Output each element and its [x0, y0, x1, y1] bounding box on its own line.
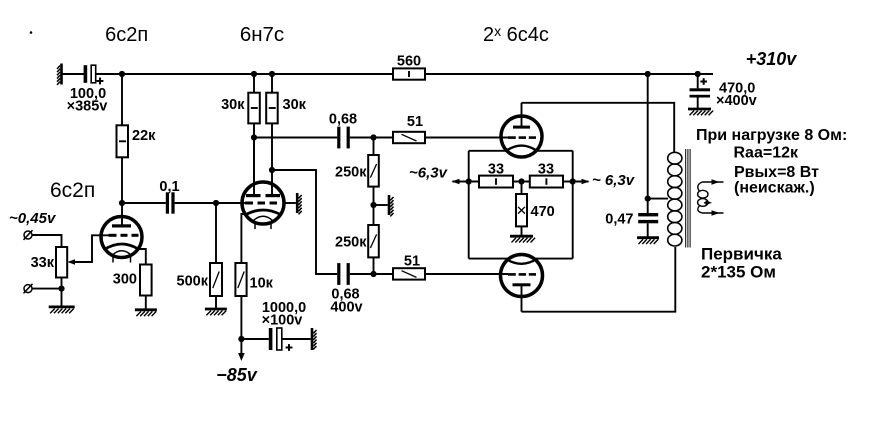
- tube V1 cathode: [105, 244, 140, 250]
- tube V1 6s2p envelope: [101, 217, 142, 258]
- potentiometer 33k body: [56, 247, 67, 278]
- wire 0,47 cap top stub: [647, 199, 649, 213]
- node B+ at 30k left: [251, 71, 257, 77]
- resistor 300: [140, 265, 152, 296]
- wire +310v rail (560 to right end): [425, 73, 713, 75]
- capacitor 0,1: [166, 192, 175, 213]
- capacitor 0,68 upper: [337, 127, 350, 149]
- arrow heater 6,3v left: [452, 179, 460, 185]
- wire 300 resistor to ground: [145, 296, 147, 310]
- tube V3 grid: [508, 136, 536, 139]
- node upper 250k top: [370, 134, 376, 140]
- tube V1 heater: [113, 251, 132, 263]
- tube V2 anode a1: [246, 138, 261, 198]
- wire heater loop top (upper 6s4s cathode): [469, 150, 573, 152]
- svg-text:0,1: 0,1: [159, 179, 179, 195]
- wire center tap horizontal: [648, 198, 668, 200]
- ground under 470,0: [688, 109, 713, 115]
- svg-text:0,68: 0,68: [329, 112, 357, 128]
- wire 0,47 cap bottom stub to ground: [647, 223, 649, 237]
- svg-text:250к: 250к: [335, 235, 367, 251]
- svg-text:400v: 400v: [330, 300, 362, 316]
- svg-text:×400v: ×400v: [716, 93, 757, 109]
- wire 1000,0 cap to ground wall: [282, 338, 311, 340]
- wire B+ rail (cap to 560): [96, 73, 394, 75]
- node heater right: [570, 178, 576, 184]
- svg-text:6с2п: 6с2п: [50, 179, 95, 202]
- wire 6,3v humdinger row: [453, 181, 589, 183]
- node B+ at 22k: [119, 71, 125, 77]
- wire 250k chain vertical: [373, 138, 375, 275]
- resistor 30k left: [248, 93, 259, 124]
- node 250k midpoint: [370, 202, 376, 208]
- wire 470,0 cap bottom stub to ground: [697, 98, 699, 109]
- wire upper 51 to V3 grid: [425, 137, 508, 139]
- wire input top terminal to pot: [32, 235, 62, 247]
- tube V4 cathode: [506, 259, 537, 264]
- ground wall at input cap: [57, 64, 63, 85]
- wire heater loop bottom (lower 6s4s cathode): [469, 258, 573, 260]
- input terminal bottom: [24, 284, 33, 294]
- svg-text:~6,3v: ~6,3v: [409, 165, 449, 182]
- svg-text:10к: 10к: [250, 276, 274, 292]
- wire input bottom terminal to pot bottom: [32, 288, 62, 290]
- capacitor 100,0 x385v electrolytic: [84, 65, 104, 84]
- transformer core: [685, 149, 690, 248]
- wire 30k left feed down to anode 1: [253, 74, 255, 184]
- wire lower 51 to V4 grid: [425, 273, 508, 275]
- svg-text:300: 300: [113, 272, 137, 288]
- tube V2 heater: [254, 216, 273, 229]
- resistor 250k lower: [368, 225, 379, 257]
- svg-text:33: 33: [538, 162, 554, 178]
- tube V4 lower 6s4s envelope: [501, 255, 543, 297]
- wire anode node to 0,1 cap: [122, 202, 166, 204]
- secondary lead arrowheads: [706, 179, 720, 216]
- tube V4 anode: [513, 283, 531, 311]
- wire 470 resistor to ground: [521, 182, 523, 236]
- ground wall at 250k midpoint: [388, 195, 394, 216]
- wire upper anode to transformer primary top: [522, 103, 675, 153]
- wire -85v node to 1000,0 cap: [241, 338, 268, 340]
- arrow -85v: [238, 339, 245, 361]
- input terminal top: [24, 230, 33, 240]
- svg-text:+310v: +310v: [746, 49, 798, 69]
- svg-text:30к: 30к: [221, 97, 245, 113]
- node primary center tap: [645, 196, 651, 202]
- capacitor 0,47: [638, 213, 658, 223]
- tube V3 anode: [513, 103, 530, 129]
- resistor 51 lower: [393, 268, 425, 279]
- node +310v at transformer feed: [645, 71, 651, 77]
- node B+ at 30k right: [269, 71, 275, 77]
- tube V2 6n7s envelope: [242, 182, 284, 224]
- ground under 0,47: [637, 238, 659, 244]
- svg-text:При нагрузке 8 Ом:: При нагрузке 8 Ом:: [696, 127, 847, 144]
- svg-text:6с2п: 6с2п: [105, 24, 148, 46]
- node grid V2: [213, 200, 219, 206]
- wire V1 cathode lead to 300: [139, 249, 146, 265]
- tube V4 grid: [508, 273, 536, 276]
- wire 0,1 cap to 6n7s grid: [175, 202, 244, 204]
- capacitor 0,68 400v lower: [337, 263, 350, 285]
- svg-text:470: 470: [531, 204, 555, 220]
- svg-text:(неискаж.): (неискаж.): [734, 180, 815, 197]
- wire grid node down through 500k to ground: [215, 203, 217, 309]
- svg-text:~0,45v: ~0,45v: [9, 210, 57, 227]
- tube V1 grid: [109, 234, 139, 237]
- svg-text:~ 6,3v: ~ 6,3v: [592, 172, 636, 189]
- ground wall at 6n7s grid2: [296, 193, 302, 214]
- wire 470,0 cap top stub: [697, 74, 699, 88]
- tube V2 anode a2: [266, 170, 281, 197]
- resistor 10k: [235, 263, 246, 296]
- wire 6n7s grid 2 to ground wall: [284, 202, 296, 204]
- wire heater loop left side: [468, 151, 470, 259]
- wire 250k midpoint to ground wall: [374, 204, 388, 206]
- svg-text:33к: 33к: [31, 255, 55, 271]
- resistor 33 right: [530, 176, 563, 188]
- svg-text:−85v: −85v: [216, 365, 258, 385]
- node anode V2a: [251, 134, 257, 140]
- svg-text:Рвых=8 Вт: Рвых=8 Вт: [734, 164, 819, 181]
- ground under pot 33k: [49, 307, 75, 313]
- wire 22k feed / anode node vertical: [121, 74, 123, 203]
- wire heater loop right side: [572, 151, 574, 259]
- svg-text:250к: 250к: [335, 165, 367, 181]
- svg-text:33: 33: [488, 162, 504, 178]
- resistor 500k: [210, 263, 222, 296]
- resistor 22k: [117, 125, 129, 157]
- node lower 250k bottom: [370, 271, 376, 277]
- svg-text:500к: 500к: [177, 274, 209, 290]
- resistor 33 left: [479, 176, 513, 188]
- wire anode 2 branch to lower coupling rail: [272, 170, 337, 274]
- transformer primary winding: [668, 152, 682, 246]
- resistor 470: [516, 194, 527, 226]
- node pot bottom: [58, 286, 64, 292]
- wire lower anode to transformer primary bottom: [522, 247, 676, 312]
- svg-text:0,47: 0,47: [605, 212, 633, 228]
- wire 30k right feed down to anode 2: [271, 74, 273, 170]
- ground wall at 1000,0 cap: [311, 328, 317, 350]
- wire B+ rail left (ground wall to 100,0 cap): [63, 73, 85, 75]
- tube V3 upper 6s4s envelope: [501, 116, 542, 157]
- wire V1 grid to pot wiper: [70, 235, 110, 262]
- node -85v: [238, 336, 244, 342]
- wire +310v feed to primary center tap: [647, 74, 649, 199]
- ground under 470: [510, 236, 535, 242]
- svg-text:6н7с: 6н7с: [240, 23, 284, 46]
- svg-text:51: 51: [407, 114, 423, 130]
- svg-text:2х 6с4с: 2х 6с4с: [483, 23, 549, 46]
- wire 6n7s cathode down through 10k to -85v node: [240, 263, 242, 339]
- wire lower coupling rail (0,68 to 51): [350, 273, 393, 275]
- resistor 30k right: [266, 93, 278, 124]
- svg-text:×100v: ×100v: [262, 313, 303, 329]
- tube V2 cathode: [246, 210, 281, 215]
- capacitor 1000,0 x100v electrolytic: [269, 328, 293, 351]
- node humdinger center: [518, 178, 524, 184]
- svg-text:22к: 22к: [132, 128, 156, 144]
- resistor 560: [393, 68, 425, 79]
- resistor 51 upper: [393, 132, 425, 143]
- stray mark: [30, 31, 33, 34]
- node heater left: [466, 178, 472, 184]
- node +310v at 470,0 cap: [695, 71, 701, 77]
- svg-text:Raa=12к: Raa=12к: [734, 145, 799, 162]
- tube V3 cathode: [507, 146, 537, 151]
- svg-text:Первичка: Первичка: [701, 245, 782, 264]
- resistor 250k upper: [368, 155, 379, 187]
- wire upper coupling rail (anode1 to 0,68): [254, 137, 337, 139]
- ground under 300: [135, 310, 157, 316]
- svg-text:2*135 Ом: 2*135 Ом: [701, 263, 776, 282]
- wire upper coupling rail (0,68 to 51): [350, 137, 393, 139]
- wire pot bottom to ground: [61, 278, 63, 307]
- pot wiper arrowhead: [68, 259, 76, 265]
- tube V1 anode: [112, 203, 131, 228]
- ground under 500k: [205, 309, 227, 315]
- capacitor 470,0 x400v electrolytic: [690, 78, 711, 97]
- wire V2 cathode lead to 10k: [241, 214, 246, 264]
- svg-text:×385v: ×385v: [67, 99, 108, 115]
- svg-text:30к: 30к: [283, 97, 307, 113]
- node anode V2b: [269, 167, 275, 173]
- transformer secondary winding: [698, 182, 724, 213]
- arrow heater 6,3v right: [582, 179, 590, 185]
- node anode V1: [119, 200, 125, 206]
- tube V2 grids: [243, 202, 278, 205]
- svg-text:560: 560: [397, 54, 421, 70]
- svg-text:51: 51: [404, 254, 420, 270]
